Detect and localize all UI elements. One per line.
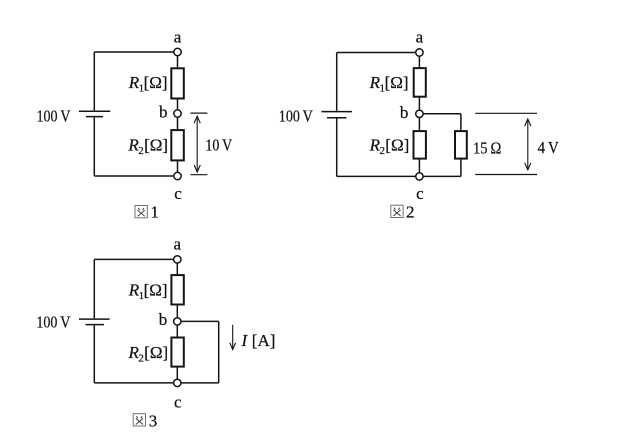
current arrow I fig3 bbox=[230, 325, 236, 350]
svg-text:[Ω]: [Ω] bbox=[144, 281, 168, 300]
battery V3 short plate bbox=[86, 324, 105, 326]
voltage tick lower fig2 bbox=[475, 174, 537, 176]
resistor R1 fig2 label R1[ohm] bbox=[369, 73, 409, 95]
wire fig2 left rail upper bbox=[336, 53, 338, 111]
svg-text:4 V: 4 V bbox=[538, 138, 560, 157]
svg-text:c: c bbox=[174, 184, 182, 203]
battery V2 long plate bbox=[321, 111, 352, 113]
svg-text:100 V: 100 V bbox=[36, 312, 71, 331]
svg-text:[Ω]: [Ω] bbox=[144, 136, 168, 155]
wire fig3 top rail (a to left) bbox=[94, 258, 177, 260]
wire fig3 left rail lower bbox=[93, 325, 95, 383]
svg-text:100 V: 100 V bbox=[279, 107, 314, 126]
resistor R1 fig1 label R1[ohm] bbox=[128, 73, 168, 95]
battery V2 short plate bbox=[327, 117, 346, 119]
resistor R2 fig1 bbox=[171, 130, 184, 160]
wire fig2 node b to right branch bbox=[419, 113, 461, 115]
node c fig2 bbox=[416, 173, 423, 180]
svg-text:[Ω]: [Ω] bbox=[385, 136, 409, 155]
node c fig3 bbox=[174, 379, 181, 386]
wire fig3 R1 to node b bbox=[176, 305, 178, 322]
wire fig3 left rail upper bbox=[93, 259, 95, 318]
svg-text:[A]: [A] bbox=[252, 331, 276, 350]
node c fig1 bbox=[174, 172, 181, 179]
svg-text:15 Ω: 15 Ω bbox=[473, 138, 501, 157]
node a fig2 bbox=[416, 49, 423, 56]
caption fig2 (zu 2) bbox=[391, 202, 415, 221]
current value label I [A] fig3 bbox=[241, 331, 276, 350]
voltage tick upper fig2 bbox=[475, 112, 537, 114]
svg-text:c: c bbox=[416, 184, 424, 203]
node b fig2 bbox=[416, 110, 423, 117]
wire fig3 R2 to node c bbox=[176, 367, 178, 383]
node b fig3 bbox=[174, 318, 181, 325]
voltage arrow fig1 (double headed) bbox=[194, 116, 200, 172]
svg-text:b: b bbox=[400, 103, 409, 122]
resistor R1 fig3 bbox=[171, 275, 183, 304]
svg-text:10 V: 10 V bbox=[205, 136, 232, 155]
svg-text:I: I bbox=[241, 331, 249, 350]
wire fig1 R2 to node c bbox=[177, 160, 179, 176]
svg-text:2: 2 bbox=[406, 202, 415, 221]
svg-text:a: a bbox=[174, 28, 182, 47]
resistor R1 fig2 bbox=[414, 68, 426, 97]
svg-text:100 V: 100 V bbox=[37, 107, 72, 126]
svg-text:c: c bbox=[174, 393, 182, 412]
resistor R1 fig3 label R1[ohm] bbox=[128, 281, 168, 303]
wire fig2 node a to R1 bbox=[418, 53, 420, 68]
wire fig3 node b to R2 bbox=[176, 321, 178, 337]
svg-text:1: 1 bbox=[150, 203, 159, 222]
wire fig3 right branch bbox=[218, 321, 220, 383]
wire fig2 R2 to node c bbox=[418, 159, 420, 177]
svg-text:[Ω]: [Ω] bbox=[385, 73, 409, 92]
wire fig2 top rail (a to left) bbox=[337, 52, 420, 54]
node b fig1 bbox=[174, 110, 181, 117]
wire fig3 node b to right branch bbox=[177, 320, 218, 322]
wire fig2 right branch lower bbox=[460, 159, 462, 177]
wire fig2 bottom rail bbox=[337, 175, 461, 177]
svg-text:2: 2 bbox=[138, 352, 144, 364]
wire fig1 left rail upper bbox=[93, 52, 95, 110]
resistor R2 fig3 label R2[ohm] bbox=[128, 343, 169, 365]
wire fig1 R1 to node b bbox=[177, 100, 179, 114]
wire fig1 top rail (a to left) bbox=[94, 51, 177, 53]
svg-text:b: b bbox=[159, 102, 168, 121]
voltage arrow fig2 (double headed) bbox=[525, 119, 531, 170]
svg-text:2: 2 bbox=[138, 145, 144, 157]
resistor R1 fig1 bbox=[171, 68, 184, 98]
wire fig3 node a to R1 bbox=[176, 259, 178, 275]
battery V1 short plate bbox=[86, 116, 103, 118]
wire fig2 right branch upper bbox=[460, 114, 462, 131]
svg-text:a: a bbox=[416, 28, 424, 47]
svg-text:a: a bbox=[174, 235, 182, 254]
resistor R2 fig3 bbox=[171, 338, 183, 367]
svg-text:3: 3 bbox=[149, 411, 158, 430]
svg-text:b: b bbox=[159, 310, 168, 329]
node a fig3 bbox=[174, 256, 181, 263]
resistor 15 ohm fig2 bbox=[455, 131, 467, 159]
wire fig2 left rail lower bbox=[336, 119, 338, 177]
battery V3 long plate bbox=[79, 318, 110, 320]
resistor R2 fig2 bbox=[414, 131, 426, 159]
battery V1 long plate bbox=[79, 110, 110, 112]
svg-text:[Ω]: [Ω] bbox=[144, 343, 168, 362]
caption fig1 (zu 1) bbox=[135, 203, 159, 222]
resistor R2 fig2 label R2[ohm] bbox=[369, 136, 410, 158]
wire fig3 bottom rail bbox=[94, 382, 218, 384]
resistor R2 fig1 label R2[ohm] bbox=[127, 136, 168, 158]
wire fig1 left rail lower bbox=[93, 117, 95, 176]
node a fig1 bbox=[174, 48, 181, 55]
caption fig3 (zu 3) bbox=[133, 411, 157, 430]
wire fig1 bottom rail bbox=[94, 175, 177, 177]
voltage tick lower fig1 bbox=[190, 174, 207, 176]
voltage tick upper fig1 bbox=[190, 112, 207, 114]
wire fig1 node a to R1 bbox=[177, 52, 179, 67]
svg-text:2: 2 bbox=[380, 145, 386, 157]
svg-text:[Ω]: [Ω] bbox=[144, 73, 168, 92]
wire fig1 node b to R2 bbox=[177, 114, 179, 131]
wire fig2 R1 to node b to R2 bbox=[418, 97, 420, 131]
